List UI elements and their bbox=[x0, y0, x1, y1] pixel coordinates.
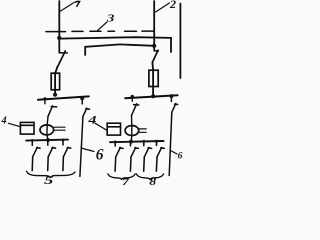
busbar section 2 lower (right distribution bus) bbox=[110, 141, 164, 142]
wire left metering stub bbox=[44, 99, 46, 104]
node I (right lower bus center dot) bbox=[129, 140, 133, 144]
wire outgoing line 6 right bbox=[169, 96, 172, 176]
feeder switch S7a (right feeder 1) bbox=[115, 142, 123, 171]
label 3 leader bbox=[97, 22, 108, 31]
wire below switch QS2 bbox=[151, 62, 154, 96]
label 1 leader bbox=[60, 3, 74, 12]
node I3 (right bus tap dot 4) bbox=[155, 140, 158, 143]
switch QS1 (left incomer fuse-switch) bbox=[58, 51, 68, 67]
meter P2 (right meter box) bbox=[107, 123, 120, 135]
wire outgoing line 6 left bbox=[80, 98, 83, 177]
wire CT T1 secondary leads bbox=[54, 127, 65, 130]
feeder switch S5c (left feeder 3) bbox=[63, 140, 71, 170]
brace group 5 bbox=[27, 171, 76, 177]
fuse F2 (right incomer fuse) bbox=[149, 70, 158, 86]
current transformer T1 (left CT circle) bbox=[40, 125, 54, 135]
current transformer T2 (right CT circle) bbox=[125, 126, 139, 136]
svg-text:7: 7 bbox=[122, 176, 130, 185]
brace group 7 bbox=[108, 174, 135, 179]
wire tie line A from incomer 1 to right drop bbox=[59, 37, 171, 52]
node J (line 6 right bus dot) bbox=[169, 94, 173, 98]
label 2 leader bbox=[156, 3, 170, 12]
wire tie line B from left drop to incomer 2 bbox=[85, 44, 154, 55]
switch QS2 (right incomer fuse-switch) bbox=[152, 50, 158, 62]
node G (line 6 left bus dot) bbox=[80, 96, 84, 100]
feeder switch S8b (right feeder 4) bbox=[156, 141, 164, 171]
wire left metering drop bbox=[47, 116, 48, 139]
node C (left bus junction dot) bbox=[53, 93, 57, 97]
feeder switch S5b (left feeder 2) bbox=[48, 141, 56, 171]
wire CT T2 secondary leads bbox=[139, 129, 146, 132]
node A (junction dot on left incomer) bbox=[57, 36, 61, 40]
wire through CT T2 bbox=[131, 126, 133, 136]
svg-text:4: 4 bbox=[0, 115, 6, 126]
label 6 left leader bbox=[81, 148, 94, 152]
feeder switch S7b (right feeder 2) bbox=[130, 142, 138, 171]
node H (right metering tap dot) bbox=[131, 95, 135, 99]
feeder switch S8a (right feeder 3) bbox=[144, 142, 152, 172]
svg-text:8: 8 bbox=[149, 175, 157, 185]
node I2 (right bus tap dot 3) bbox=[142, 140, 145, 143]
node I1 (right bus tap dot 1) bbox=[114, 141, 117, 144]
feeder switch S5a (left feeder 1) bbox=[32, 141, 40, 171]
fuse F1 (left incomer fuse) bbox=[51, 73, 59, 90]
busbar section 1 (left bus) bbox=[38, 96, 89, 99]
svg-text:6: 6 bbox=[178, 152, 183, 162]
wire right metering stub bbox=[131, 97, 133, 102]
switch S3 (left metering switch) bbox=[48, 106, 57, 117]
switch S6b (line 6 right switch) bbox=[172, 104, 178, 113]
svg-text:4: 4 bbox=[87, 113, 96, 126]
node E (left metering tap dot) bbox=[43, 97, 46, 100]
label 6 right leader bbox=[171, 151, 177, 155]
label 1 bbox=[75, 1, 80, 6]
svg-text:2: 2 bbox=[169, 0, 176, 11]
busbar section 1 lower (left distribution bus) bbox=[26, 140, 68, 141]
node F1 (left bus tap dot 1) bbox=[31, 139, 34, 142]
svg-text:6: 6 bbox=[96, 146, 104, 163]
svg-text:3: 3 bbox=[106, 11, 115, 24]
node D (right bus junction dot) bbox=[151, 94, 155, 98]
node B (junction dot on right incomer) bbox=[152, 44, 156, 48]
wire incoming line 1 (left incomer vertical) bbox=[58, 1, 60, 52]
wire right edge line bbox=[179, 4, 181, 79]
meter P1 (left meter box) bbox=[20, 122, 34, 134]
label 4 right leader bbox=[95, 123, 107, 130]
label 4 left leader bbox=[9, 123, 20, 126]
switch S6a (line 6 left switch) bbox=[83, 108, 90, 116]
wire incoming line 2 (right incomer vertical) bbox=[153, 1, 155, 50]
busbar section 2 (right bus) bbox=[125, 95, 177, 98]
wire below switch QS1 bbox=[55, 67, 57, 96]
node F2 (left bus tap dot 2) bbox=[62, 139, 65, 142]
switch S4 (right metering switch) bbox=[132, 104, 139, 116]
node F (left lower bus center dot) bbox=[46, 138, 50, 142]
wire dashed tie line 3 bbox=[46, 30, 153, 33]
wire through CT T1 bbox=[46, 125, 48, 135]
brace group 8 bbox=[136, 174, 163, 179]
wire right metering drop bbox=[130, 115, 133, 141]
svg-text:5: 5 bbox=[44, 174, 54, 185]
